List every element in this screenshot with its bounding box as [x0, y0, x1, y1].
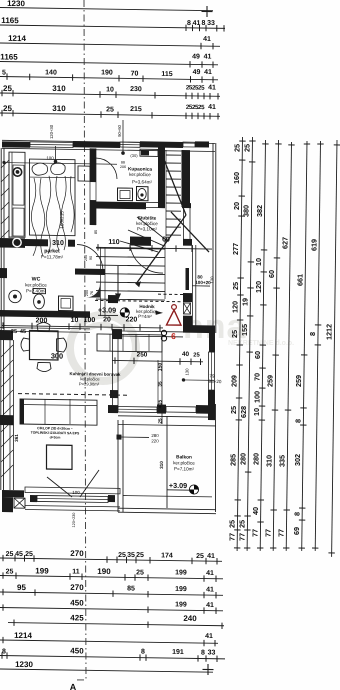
bathroom south wall: [96, 202, 146, 210]
svg-text:199: 199: [175, 601, 187, 608]
dim line 425-240: [8, 623, 224, 626]
svg-text:P=29,90m²: P=29,90m²: [79, 381, 100, 386]
dim line 1214-41: [0, 640, 218, 643]
svg-text:41: 41: [206, 570, 214, 577]
svg-text:627: 627: [280, 237, 289, 249]
svg-text:10: 10: [254, 258, 263, 266]
stair east inner wall bar: [182, 150, 191, 207]
bathroom window leader: [122, 120, 124, 152]
kitchen north boundary lines: [122, 330, 183, 333]
svg-text:300: 300: [51, 351, 63, 360]
wardrobe circle (lamp): [13, 168, 21, 177]
bathroom shelf under window: [140, 149, 158, 156]
balcony slab top edge: [118, 416, 215, 417]
svg-text:270: 270: [70, 583, 84, 592]
recessed east wall pier top: [183, 239, 192, 246]
svg-text:280: 280: [252, 453, 261, 465]
svg-text:120: 120: [210, 276, 215, 284]
red roof drain triangle: [172, 305, 177, 310]
balcony top inner line: [118, 424, 216, 425]
stair direction diagonal (dog-leg): [163, 157, 186, 215]
svg-text:70: 70: [253, 373, 262, 381]
svg-text:450: 450: [70, 598, 84, 607]
svg-text:120+230: 120+230: [72, 513, 76, 528]
dim line 25-310-10-230-252525-41: [0, 93, 220, 96]
balcony right edge: [215, 404, 217, 512]
bathroom door arc: [96, 158, 117, 179]
bathroom toilet: [137, 187, 149, 201]
svg-text:6: 6: [171, 331, 176, 341]
left wall hatch (ciklop): [1, 345, 13, 357]
dining table: [30, 331, 59, 360]
svg-text:259: 259: [266, 375, 275, 387]
svg-text:45: 45: [20, 329, 26, 335]
svg-text:95+20: 95+20: [209, 379, 222, 384]
balcony interior line: [166, 416, 168, 508]
dim line 8-450-8-191-8-33: [0, 656, 225, 659]
svg-text:90: 90: [89, 256, 93, 260]
tv leader diagonals: [47, 477, 72, 497]
top wall right segment: [140, 141, 183, 148]
svg-text:25: 25: [118, 552, 126, 559]
leader to bathroom door: [3, 163, 117, 165]
top wall middle segment: [73, 141, 120, 148]
svg-text:41: 41: [203, 36, 211, 43]
svg-text:270: 270: [70, 549, 84, 558]
corridor east wall (WC side): [100, 247, 102, 316]
level marker +3.09: [120, 308, 129, 317]
svg-text:25: 25: [233, 144, 242, 152]
svg-text:310: 310: [159, 461, 164, 469]
east outer face lines: [212, 143, 214, 333]
svg-text:Stubište: Stubište: [138, 215, 157, 220]
svg-text:25: 25: [229, 406, 238, 414]
svg-text:79: 79: [209, 373, 215, 378]
section symbol circles: [161, 330, 166, 335]
bathroom window (top): [120, 142, 140, 147]
svg-text:25: 25: [243, 144, 252, 152]
stair down arrow: [117, 266, 119, 296]
svg-text:1230: 1230: [7, 0, 25, 8]
svg-text:88: 88: [121, 161, 125, 165]
svg-text:69: 69: [292, 527, 301, 535]
svg-text:310: 310: [52, 104, 66, 113]
svg-text:250: 250: [137, 351, 148, 358]
svg-text:25: 25: [228, 520, 237, 528]
dim column 2: [247, 137, 252, 551]
dim line 25-199-11-190-25-199-41: [0, 576, 223, 579]
svg-text:P=4m²: P=4m²: [138, 314, 152, 319]
bathroom washing machine: [118, 188, 133, 201]
svg-text:335: 335: [278, 455, 287, 467]
top wall left segment: [2, 141, 30, 147]
bottom-left wall corner: [2, 490, 24, 497]
axis A centerline: [84, 0, 86, 680]
svg-text:310: 310: [265, 455, 274, 467]
dim column 1: [237, 137, 242, 551]
svg-text:77: 77: [228, 533, 237, 541]
svg-text:77: 77: [277, 529, 286, 537]
svg-text:120: 120: [230, 301, 239, 313]
dim line 95-270-85-199-41: [0, 592, 223, 595]
svg-text:200: 200: [36, 317, 48, 324]
svg-text:P=2,40m²: P=2,40m²: [26, 288, 47, 293]
svg-text:8: 8: [2, 648, 6, 655]
svg-text:P=3,64m²: P=3,64m²: [132, 179, 153, 184]
svg-text:199: 199: [35, 566, 49, 575]
svg-text:240: 240: [183, 614, 197, 623]
WC washing machine: [59, 296, 74, 311]
recessed east wall face lines: [192, 245, 194, 326]
svg-text:60: 60: [162, 236, 170, 243]
left outer wall upper (bedroom): [0, 148, 2, 238]
svg-text:11: 11: [72, 568, 80, 575]
bedroom/bathroom dividing wall: [90, 148, 96, 182]
svg-text:85: 85: [127, 585, 135, 592]
svg-text:25: 25: [3, 104, 12, 113]
svg-text:110: 110: [108, 239, 119, 246]
svg-text:8: 8: [292, 512, 301, 516]
balcony door glazing: [118, 406, 157, 412]
svg-text:Balkon: Balkon: [176, 454, 192, 459]
svg-text:8: 8: [201, 650, 205, 657]
svg-text:661: 661: [295, 274, 304, 286]
kitchen east wall lower pier: [208, 390, 215, 420]
sofa: [20, 399, 97, 425]
svg-text:425: 425: [70, 613, 84, 622]
svg-text:206: 206: [120, 165, 126, 169]
svg-text:10: 10: [71, 317, 79, 324]
svg-text:ker.pločice: ker.pločice: [129, 172, 151, 177]
svg-text:77: 77: [251, 529, 260, 537]
svg-text:Kupaonica: Kupaonica: [128, 166, 152, 171]
dim column 4: [273, 140, 278, 551]
svg-text:77: 77: [264, 529, 273, 537]
svg-text:8: 8: [141, 649, 145, 656]
svg-text:20: 20: [103, 316, 111, 323]
stair lower landing edge: [96, 299, 165, 300]
WC sink: [9, 290, 21, 303]
dim line 1165/49-41: [0, 62, 218, 65]
svg-text:100: 100: [46, 155, 54, 160]
recessed east wall pier bottom: [183, 316, 192, 326]
svg-text:200: 200: [85, 290, 89, 296]
hodnik leader arrow: [155, 311, 163, 316]
circle in bedroom south pier: [13, 238, 21, 247]
svg-text:P=11,78m²: P=11,78m²: [41, 254, 64, 259]
svg-text:1230: 1230: [15, 660, 33, 669]
dim line 25-310-25-215-252525-41: [0, 113, 220, 116]
svg-text:ker.pločice: ker.pločice: [136, 221, 158, 226]
axis A bottom jog and label: [77, 679, 84, 681]
svg-text:230: 230: [130, 86, 142, 93]
balcony inner bottom line: [123, 496, 212, 497]
svg-text:25: 25: [11, 329, 17, 335]
svg-text:1165: 1165: [1, 16, 19, 25]
svg-text:+3.09: +3.09: [169, 481, 187, 490]
svg-text:280: 280: [239, 453, 248, 465]
svg-text:25: 25: [238, 520, 247, 528]
dashed overhang line upper: [158, 293, 184, 295]
hodnik-balcony passage wall: [112, 339, 114, 408]
svg-text:P=7,10m²: P=7,10m²: [174, 466, 195, 471]
svg-text:259: 259: [294, 375, 303, 387]
corner X box: [14, 498, 25, 508]
svg-text:200: 200: [84, 255, 88, 261]
stair secondary diagonal: [171, 212, 209, 252]
svg-text:310: 310: [52, 240, 64, 247]
svg-text:19: 19: [241, 298, 250, 306]
svg-text:1165: 1165: [0, 52, 18, 61]
svg-text:76: 76: [90, 291, 94, 295]
svg-text:285: 285: [229, 454, 238, 466]
svg-text:P=3,10m²: P=3,10m²: [137, 226, 158, 231]
svg-text:70: 70: [131, 70, 139, 77]
WC south wall: [0, 310, 90, 318]
svg-text:280: 280: [151, 433, 159, 438]
svg-text:90+60: 90+60: [117, 124, 122, 137]
bed: [30, 159, 76, 256]
corridor wall stub: [75, 269, 105, 275]
svg-text:25: 25: [136, 552, 144, 559]
svg-text:120: 120: [254, 281, 263, 293]
svg-text:8: 8: [294, 419, 303, 423]
svg-text:382: 382: [255, 205, 264, 217]
svg-text:41: 41: [205, 633, 213, 640]
svg-text:41: 41: [208, 104, 216, 111]
svg-text:1214: 1214: [14, 631, 32, 640]
svg-text:25: 25: [136, 569, 144, 576]
svg-text:41: 41: [204, 69, 212, 76]
dim column 3: [260, 140, 265, 551]
svg-text:1214: 1214: [8, 34, 26, 43]
svg-text:77: 77: [238, 533, 247, 541]
svg-text:25: 25: [106, 106, 114, 113]
svg-text:41: 41: [204, 53, 212, 60]
svg-text:8: 8: [187, 20, 191, 27]
kitchen upper counter: [97, 334, 162, 352]
svg-text:25: 25: [196, 553, 204, 560]
svg-text:252525: 252525: [186, 104, 205, 111]
svg-text:310: 310: [52, 84, 66, 93]
door leaf bar (stair east door): [186, 268, 190, 290]
svg-text:150: 150: [158, 363, 164, 372]
outer top wall: [2, 140, 215, 143]
svg-text:40: 40: [251, 507, 260, 515]
svg-text:361: 361: [14, 434, 19, 442]
top wall small window/gap: [183, 142, 195, 147]
dim line 1165/8-41-8-33: [0, 25, 225, 28]
svg-text:NEKRETNINE d.o.o.: NEKRETNINE d.o.o.: [228, 340, 294, 347]
stair upper flight treads: [166, 154, 181, 156]
svg-text:1212: 1212: [325, 324, 334, 340]
svg-text:199: 199: [175, 586, 187, 593]
bathroom/stair dividing wall: [158, 145, 165, 208]
svg-text:415: 415: [158, 400, 164, 409]
svg-text:220: 220: [151, 438, 159, 443]
svg-text:49: 49: [193, 69, 201, 76]
svg-text:ker.pločice: ker.pločice: [173, 460, 195, 465]
wall pier kitchen corner: [112, 329, 122, 339]
WC toilet: [33, 288, 46, 293]
svg-text:49: 49: [192, 53, 200, 60]
left wall lower (living) face lines: [0, 330, 2, 490]
svg-text:5: 5: [2, 70, 6, 77]
level marker +3.09: [189, 485, 198, 494]
south glazing (living room): [25, 487, 120, 494]
svg-text:190: 190: [97, 567, 111, 576]
svg-text:120+30: 120+30: [49, 124, 54, 139]
dim column 8: [332, 140, 337, 557]
svg-text:ker.pločice: ker.pločice: [25, 282, 47, 287]
dim column 5: [286, 142, 291, 551]
svg-text:25: 25: [6, 551, 14, 558]
svg-text:302: 302: [293, 454, 302, 466]
stair lower flight treads: [96, 248, 165, 249]
nightstand right of bed: [78, 166, 90, 181]
svg-text:100: 100: [72, 490, 80, 495]
bedroom door opening + arc: [77, 245, 103, 271]
svg-text:380: 380: [242, 205, 251, 217]
kitchen east window: [209, 352, 215, 390]
svg-text:33: 33: [208, 649, 216, 656]
label 310 on bedroom south wall: [48, 238, 68, 247]
wall pier west of balcony door: [110, 390, 118, 398]
left wall piers (living): [0, 330, 13, 340]
svg-text:277: 277: [231, 243, 240, 255]
svg-text:209: 209: [230, 375, 239, 387]
svg-text:174: 174: [161, 552, 173, 559]
svg-text:95: 95: [17, 583, 26, 592]
svg-text:35: 35: [127, 552, 135, 559]
balcony railing left: [117, 420, 119, 512]
svg-text:619: 619: [309, 239, 318, 251]
svg-text:115: 115: [161, 71, 172, 78]
svg-text:20: 20: [232, 202, 241, 210]
east wall vent block with X: [184, 303, 191, 314]
bedroom south wall: [0, 238, 25, 248]
balcony railing bottom: [118, 508, 216, 509]
svg-text:41: 41: [208, 84, 216, 91]
svg-text:60: 60: [253, 351, 262, 359]
dark bar between 110 and 60: [130, 237, 151, 246]
bed duvet: [31, 176, 74, 257]
kitchen south wall: [108, 405, 118, 413]
sill line: [25, 505, 120, 506]
svg-text:40: 40: [182, 351, 190, 358]
svg-text:33: 33: [207, 20, 215, 27]
wall pier hodnik north: [108, 295, 118, 303]
wardrobe column: [9, 152, 25, 237]
svg-text:100: 100: [252, 391, 261, 403]
svg-text:8: 8: [202, 20, 206, 27]
svg-text:160x215: 160x215: [60, 211, 65, 229]
svg-text:10: 10: [106, 86, 114, 93]
WC door quarter leaf: [86, 283, 100, 297]
svg-text:80: 80: [197, 274, 203, 279]
svg-text:41: 41: [206, 586, 214, 593]
top wall corner segment: [195, 141, 209, 147]
svg-text:A: A: [70, 682, 77, 690]
stair bottom-right wall step: [183, 325, 215, 333]
svg-text:199: 199: [175, 569, 187, 576]
svg-text:252525: 252525: [186, 84, 205, 91]
stair winder arc: [130, 245, 163, 273]
svg-text:160: 160: [232, 172, 241, 184]
svg-text:85: 85: [94, 230, 98, 234]
tick axis B bottom: [203, 664, 214, 675]
svg-text:25: 25: [193, 352, 200, 358]
svg-text:155: 155: [240, 324, 249, 336]
dim line 25-140-190-70-115-49-41: [0, 77, 218, 80]
svg-text:d=3cm: d=3cm: [50, 435, 61, 439]
svg-text:140: 140: [45, 69, 57, 76]
kitchen east corner down: [209, 333, 215, 352]
svg-text:45: 45: [15, 551, 23, 558]
svg-text:628: 628: [239, 406, 248, 418]
dim line 1214/41: [0, 43, 220, 46]
svg-text:25: 25: [25, 551, 33, 558]
svg-text:450: 450: [70, 646, 84, 655]
dim line 450-199-41: [0, 608, 223, 611]
svg-text:25: 25: [3, 84, 12, 93]
tick axis B on line 1230: [202, 6, 213, 17]
svg-text:190: 190: [101, 69, 113, 76]
svg-text:(30): (30): [130, 153, 138, 158]
chairs: [21, 322, 67, 372]
svg-text:41: 41: [206, 602, 214, 609]
dim column 7: [315, 141, 320, 551]
svg-text:25: 25: [230, 330, 239, 338]
balcony leader square + labels 280/220: [117, 435, 122, 440]
svg-text:100: 100: [84, 317, 96, 324]
dashed overhang line kitchen: [18, 394, 130, 396]
svg-text:25: 25: [6, 568, 14, 575]
stair winder treads: [137, 217, 166, 240]
svg-text:+3.09: +3.09: [98, 305, 116, 314]
svg-text:215: 215: [130, 106, 142, 113]
left wall WC section: [0, 247, 2, 330]
svg-text:220: 220: [126, 316, 138, 323]
svg-text:10: 10: [252, 408, 261, 416]
bedroom window (top): [30, 142, 73, 148]
svg-text:191: 191: [172, 649, 184, 656]
svg-text:25: 25: [231, 282, 240, 290]
svg-text:60: 60: [267, 270, 276, 278]
dim column 6: [302, 141, 307, 551]
dim line 1230 (top): [0, 8, 213, 11]
kitchen south window: [166, 406, 196, 412]
svg-text:130: 130: [185, 368, 190, 376]
svg-text:8: 8: [308, 332, 317, 336]
svg-text:41: 41: [207, 553, 215, 560]
coffee table: [47, 445, 73, 469]
dim line 25-45-25-270-25-35-25-174-25-41: [0, 558, 222, 561]
recessed east wall pier mid: [183, 293, 192, 302]
dim line 1230 (bottom): [0, 669, 213, 672]
